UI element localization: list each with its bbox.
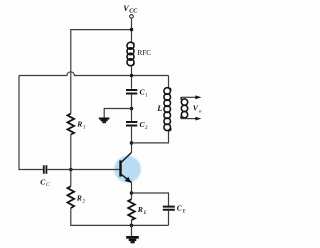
arrow top output xyxy=(195,95,201,99)
wire Re to bottom rail xyxy=(131,220,133,226)
wire top branch to R1 xyxy=(71,30,132,114)
wire Cc to base xyxy=(47,169,120,171)
wire main horizontal with hop over R1 line xyxy=(19,72,169,76)
transistor Q1 xyxy=(119,153,131,183)
wire secondary bottom lead xyxy=(181,118,197,120)
wire C1 to C2 xyxy=(131,95,133,122)
wire Vcc stem xyxy=(131,18,133,42)
node junction Vcc/R1 xyxy=(130,28,134,32)
node Vcc terminal xyxy=(130,15,134,19)
label R1 xyxy=(76,120,86,131)
label Vcc xyxy=(123,4,138,15)
node junction Cc/R1/R2/base xyxy=(69,168,73,172)
wire C2 down to tank-bottom node xyxy=(131,126,133,153)
emitter arrowhead xyxy=(125,177,132,183)
resistor R2 xyxy=(68,186,75,208)
ground mid xyxy=(99,118,110,124)
node junction bottom rail / ground xyxy=(130,224,134,228)
wire secondary top lead xyxy=(181,96,197,98)
resistor Re xyxy=(128,199,135,220)
label R2 xyxy=(76,193,86,204)
wire to mid ground xyxy=(104,109,131,118)
wire to Ce top xyxy=(132,193,169,206)
svg-text:C: C xyxy=(46,182,50,188)
ground main xyxy=(126,236,139,243)
svg-text:1: 1 xyxy=(145,93,148,99)
node junction C1/C2 midpoint xyxy=(130,107,134,111)
wire L top branch xyxy=(168,76,170,89)
svg-text:2: 2 xyxy=(83,198,86,204)
svg-text:L: L xyxy=(156,104,162,113)
label Ce xyxy=(177,204,187,215)
capacitor C2 xyxy=(126,122,137,126)
transformer secondary coil xyxy=(181,97,188,118)
base bar xyxy=(119,160,121,176)
label Cc xyxy=(40,177,50,188)
collector lead xyxy=(121,153,132,163)
wire RFC to C1 xyxy=(131,66,133,89)
label Vo xyxy=(193,104,202,115)
svg-text:2: 2 xyxy=(145,125,148,131)
wire ground stem xyxy=(131,225,133,236)
wire emitter down xyxy=(131,183,133,200)
wire tank bottom horizontal xyxy=(132,131,169,143)
wire left vertical down to Cc xyxy=(19,76,43,170)
capacitor Ce xyxy=(163,207,175,210)
label Re xyxy=(137,205,148,216)
svg-text:R: R xyxy=(76,120,82,129)
svg-text:R: R xyxy=(76,193,82,202)
emitter lead xyxy=(121,174,132,182)
resistor R1 xyxy=(68,114,75,135)
node junction RFC/C1/left-line xyxy=(130,74,134,78)
inductor RFC xyxy=(127,42,134,65)
svg-text:R: R xyxy=(137,205,143,214)
wire Ce to bottom rail xyxy=(168,210,170,225)
wire R1 to base node xyxy=(70,135,72,187)
wire R2 to bottom rail xyxy=(71,208,169,225)
capacitor Cc xyxy=(44,165,47,174)
node junction emitter/Re/Ce xyxy=(130,191,134,195)
node junction C2/L/collector xyxy=(130,141,134,145)
capacitor C1 xyxy=(126,90,137,94)
inductor L xyxy=(164,88,171,131)
arrow bottom output xyxy=(195,117,201,121)
svg-text:CC: CC xyxy=(129,9,138,15)
label C1 xyxy=(140,88,149,99)
svg-text:o: o xyxy=(199,109,202,115)
label C2 xyxy=(140,120,149,131)
svg-text:1: 1 xyxy=(83,125,86,131)
svg-text:RFC: RFC xyxy=(138,49,152,57)
